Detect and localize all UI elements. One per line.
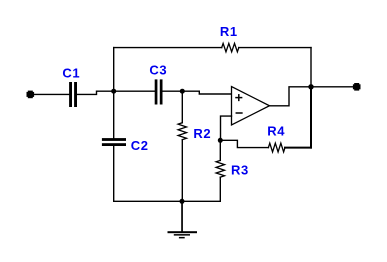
op-amp plus mark bbox=[236, 95, 242, 101]
bottom rail wire bbox=[114, 200, 221, 202]
capacitor C1 bbox=[69, 82, 77, 107]
capacitor C3 bbox=[155, 79, 163, 104]
node C bbox=[218, 138, 223, 143]
input terminal IN bbox=[27, 91, 35, 99]
ground junction node bbox=[180, 199, 185, 204]
svg-text:C1: C1 bbox=[62, 66, 80, 81]
wire node A vertical (top rail down to C2) bbox=[113, 48, 115, 139]
wire top rail left bbox=[114, 47, 222, 49]
svg-text:C3: C3 bbox=[149, 63, 167, 78]
op-amp U1 bbox=[232, 87, 270, 125]
wire right vertical lower bbox=[310, 87, 312, 148]
svg-text:R1: R1 bbox=[220, 24, 238, 39]
wire C2 to bottom rail bbox=[113, 146, 115, 201]
wire op-amp - input to node C bbox=[221, 116, 232, 140]
wire R4 to right vertical bbox=[285, 147, 311, 149]
wire right vertical upper bbox=[310, 48, 312, 87]
wire C3 to node B bbox=[163, 90, 183, 92]
svg-text:C2: C2 bbox=[131, 138, 149, 153]
svg-text:R4: R4 bbox=[267, 123, 285, 138]
wire node B down to R2 bbox=[181, 91, 183, 123]
wire top rail right bbox=[239, 47, 311, 49]
ground bbox=[168, 201, 198, 238]
wire node C to R4 (with jog) bbox=[220, 140, 268, 147]
wire input to C1 bbox=[32, 93, 69, 95]
wire R2 to bottom rail bbox=[181, 140, 183, 202]
wire R3 to bottom rail bbox=[219, 177, 221, 201]
svg-text:R3: R3 bbox=[231, 163, 249, 178]
wire node B to op-amp + input (with jog) bbox=[182, 91, 231, 94]
resistor R1 bbox=[222, 43, 239, 51]
wire to output terminal bbox=[311, 86, 354, 88]
wire op-amp output bbox=[270, 87, 312, 106]
op-amp minus mark bbox=[236, 112, 242, 114]
wire node A to C3 bbox=[114, 90, 155, 92]
node B bbox=[180, 89, 185, 94]
node A bbox=[111, 89, 116, 94]
wire C1 to node A (with jog) bbox=[77, 91, 115, 94]
capacitor C2 bbox=[102, 138, 126, 146]
resistor R4 bbox=[268, 143, 285, 152]
resistor R3 bbox=[216, 160, 224, 177]
wire node C down to R3 bbox=[219, 140, 221, 160]
output terminal OUT bbox=[353, 83, 361, 91]
resistor R2 bbox=[178, 123, 186, 140]
node OUT junction bbox=[308, 84, 313, 89]
svg-text:R2: R2 bbox=[193, 126, 211, 141]
